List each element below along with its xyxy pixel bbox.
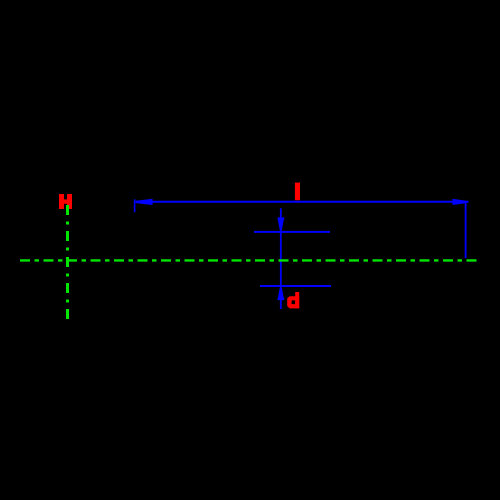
right arrowhead [453,199,467,205]
right extension line [465,202,467,258]
upper arrowhead (down) [278,219,284,230]
dimension line l [136,201,469,203]
left extension tick [134,199,136,212]
horizontal centerline [20,259,480,261]
dimension line d (vertical) [280,208,282,309]
lower arrowhead (up) [278,288,284,299]
left arrowhead [136,199,153,205]
upper diameter line [254,231,330,233]
label H [59,194,72,209]
label l [295,183,300,201]
lower diameter line [260,285,331,287]
vertical centerline [66,205,69,320]
label d [287,292,299,308]
